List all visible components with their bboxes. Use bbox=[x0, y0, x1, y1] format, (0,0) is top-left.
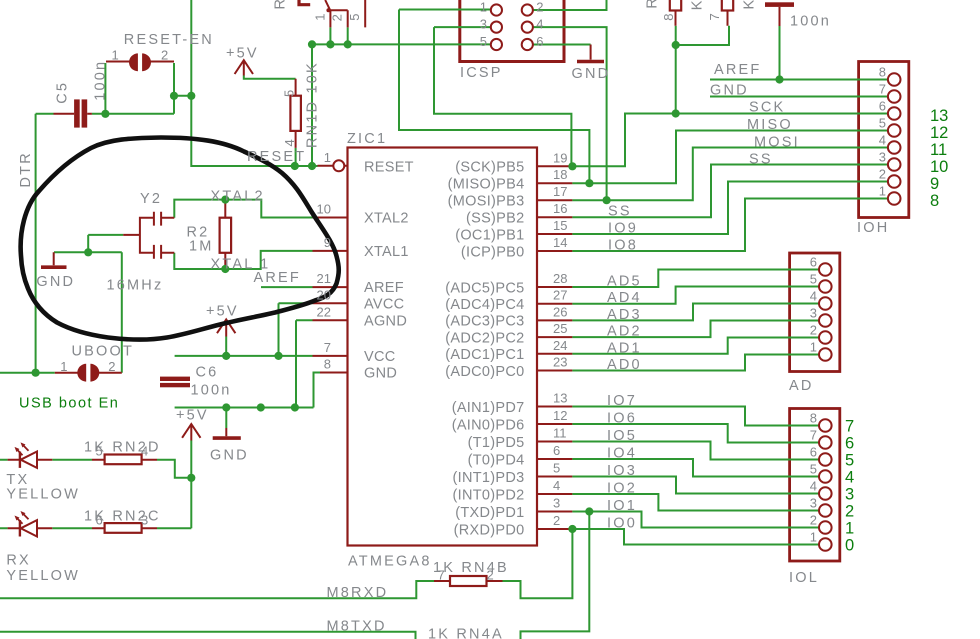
svg-text:2: 2 bbox=[330, 14, 345, 21]
svg-text:100n: 100n bbox=[790, 14, 831, 30]
svg-text:(RXD)PD0: (RXD)PD0 bbox=[454, 522, 525, 538]
svg-text:5: 5 bbox=[845, 451, 854, 469]
svg-text:(T1)PD5: (T1)PD5 bbox=[468, 435, 525, 451]
svg-text:5: 5 bbox=[553, 461, 560, 476]
svg-text:3: 3 bbox=[879, 150, 886, 165]
svg-text:RX: RX bbox=[6, 553, 31, 569]
svg-text:(ADC5)PC5: (ADC5)PC5 bbox=[445, 280, 524, 296]
svg-text:11: 11 bbox=[553, 426, 567, 441]
svg-text:AD0: AD0 bbox=[607, 357, 642, 373]
svg-text:1: 1 bbox=[313, 14, 328, 21]
svg-text:K: K bbox=[690, 0, 706, 10]
svg-text:27: 27 bbox=[553, 288, 567, 303]
svg-text:8: 8 bbox=[879, 65, 886, 80]
svg-text:(ICP)PB0: (ICP)PB0 bbox=[461, 244, 525, 260]
svg-text:28: 28 bbox=[553, 271, 567, 286]
svg-text:AVCC: AVCC bbox=[364, 296, 404, 312]
svg-text:(OC1)PB1: (OC1)PB1 bbox=[455, 227, 524, 243]
svg-text:(AIN1)PD7: (AIN1)PD7 bbox=[452, 400, 525, 416]
svg-text:8: 8 bbox=[661, 14, 676, 21]
svg-text:M8RXD: M8RXD bbox=[327, 585, 389, 601]
svg-text:(SS)PB2: (SS)PB2 bbox=[466, 211, 525, 227]
svg-text:10: 10 bbox=[317, 202, 331, 217]
svg-text:2: 2 bbox=[536, 0, 543, 14]
svg-text:GND: GND bbox=[210, 448, 249, 464]
svg-text:6: 6 bbox=[879, 99, 886, 114]
svg-text:IO6: IO6 bbox=[607, 411, 637, 427]
svg-text:7: 7 bbox=[324, 340, 331, 355]
svg-text:25: 25 bbox=[553, 321, 567, 336]
svg-text:9: 9 bbox=[324, 235, 331, 250]
svg-text:3: 3 bbox=[845, 485, 854, 503]
svg-text:(MOSI)PB3: (MOSI)PB3 bbox=[448, 194, 525, 210]
svg-text:13: 13 bbox=[930, 107, 948, 125]
svg-text:22: 22 bbox=[317, 304, 331, 319]
svg-text:4: 4 bbox=[845, 468, 854, 486]
svg-text:AD4: AD4 bbox=[607, 290, 642, 306]
svg-text:16: 16 bbox=[553, 201, 567, 216]
svg-text:14: 14 bbox=[553, 235, 567, 250]
svg-text:RESET: RESET bbox=[364, 159, 414, 175]
svg-text:6: 6 bbox=[536, 34, 543, 49]
svg-text:AGND: AGND bbox=[364, 313, 407, 329]
svg-text:23: 23 bbox=[553, 355, 567, 370]
svg-text:15: 15 bbox=[553, 218, 567, 233]
svg-text:AD: AD bbox=[789, 378, 814, 394]
svg-text:USB boot En: USB boot En bbox=[19, 396, 119, 412]
svg-text:IO7: IO7 bbox=[607, 393, 637, 409]
svg-text:16MHz: 16MHz bbox=[107, 278, 164, 294]
svg-text:M8TXD: M8TXD bbox=[327, 619, 387, 635]
svg-text:RN1D 10K: RN1D 10K bbox=[305, 61, 321, 148]
svg-text:MISO: MISO bbox=[747, 117, 793, 133]
svg-text:XTAL2: XTAL2 bbox=[364, 211, 409, 227]
svg-text:(T0)PD4: (T0)PD4 bbox=[468, 452, 525, 468]
svg-text:2: 2 bbox=[810, 513, 817, 528]
svg-text:IO5: IO5 bbox=[607, 428, 637, 444]
svg-text:1: 1 bbox=[60, 359, 67, 374]
svg-text:C6: C6 bbox=[196, 365, 219, 381]
svg-text:(ADC0)PC0: (ADC0)PC0 bbox=[445, 364, 524, 380]
svg-text:AD1: AD1 bbox=[607, 340, 642, 356]
svg-text:AD5: AD5 bbox=[607, 274, 642, 290]
svg-text:5: 5 bbox=[810, 462, 817, 477]
svg-text:IOL: IOL bbox=[789, 570, 819, 586]
svg-text:4: 4 bbox=[282, 139, 297, 146]
svg-text:ATMEGA8: ATMEGA8 bbox=[348, 554, 432, 570]
svg-text:Y2: Y2 bbox=[140, 191, 162, 207]
svg-text:(INT0)PD2: (INT0)PD2 bbox=[453, 487, 525, 503]
svg-text:18: 18 bbox=[553, 167, 567, 182]
svg-text:3: 3 bbox=[480, 16, 487, 31]
svg-text:AREF: AREF bbox=[364, 280, 404, 296]
svg-text:7: 7 bbox=[438, 568, 445, 583]
svg-text:4: 4 bbox=[810, 289, 817, 304]
svg-text:IO4: IO4 bbox=[607, 446, 637, 462]
svg-text:(ADC3)PC3: (ADC3)PC3 bbox=[445, 314, 524, 330]
svg-text:UBOOT: UBOOT bbox=[72, 344, 135, 360]
svg-text:5: 5 bbox=[282, 90, 297, 97]
svg-text:24: 24 bbox=[553, 338, 567, 353]
svg-text:GND: GND bbox=[710, 83, 749, 99]
svg-text:12: 12 bbox=[553, 408, 567, 423]
svg-text:+5V: +5V bbox=[176, 408, 209, 424]
svg-text:IO3: IO3 bbox=[607, 463, 637, 479]
svg-text:GND: GND bbox=[36, 274, 75, 290]
svg-text:26: 26 bbox=[553, 304, 567, 319]
svg-text:21: 21 bbox=[317, 271, 331, 286]
svg-text:ZIC1: ZIC1 bbox=[347, 131, 387, 147]
svg-text:AREF: AREF bbox=[254, 270, 301, 286]
svg-text:IO8: IO8 bbox=[608, 238, 638, 254]
svg-text:5: 5 bbox=[480, 34, 487, 49]
svg-text:6: 6 bbox=[810, 445, 817, 460]
svg-text:4: 4 bbox=[879, 133, 886, 148]
svg-text:+5V: +5V bbox=[206, 304, 239, 320]
svg-text:ICSP: ICSP bbox=[460, 65, 503, 81]
svg-text:1: 1 bbox=[112, 48, 119, 63]
svg-text:IO0: IO0 bbox=[607, 516, 637, 532]
svg-text:AREF: AREF bbox=[714, 62, 761, 78]
svg-text:SCK: SCK bbox=[749, 100, 785, 116]
svg-text:C5: C5 bbox=[55, 81, 71, 104]
svg-text:11: 11 bbox=[930, 141, 947, 159]
svg-text:7: 7 bbox=[879, 82, 886, 97]
svg-text:6: 6 bbox=[96, 512, 103, 527]
svg-text:0: 0 bbox=[845, 536, 854, 554]
svg-text:12: 12 bbox=[930, 124, 948, 142]
svg-text:1: 1 bbox=[879, 184, 886, 199]
svg-text:7: 7 bbox=[707, 13, 722, 20]
svg-text:1: 1 bbox=[810, 530, 817, 545]
svg-text:YELLOW: YELLOW bbox=[6, 568, 80, 584]
svg-text:(ADC2)PC2: (ADC2)PC2 bbox=[445, 330, 524, 346]
svg-text:7: 7 bbox=[810, 428, 817, 443]
svg-text:MOSI: MOSI bbox=[754, 135, 800, 151]
svg-text:20: 20 bbox=[317, 287, 331, 302]
svg-text:100n: 100n bbox=[191, 383, 232, 399]
svg-text:IOH: IOH bbox=[857, 220, 889, 236]
svg-text:17: 17 bbox=[553, 184, 567, 199]
svg-text:1: 1 bbox=[480, 0, 487, 14]
svg-text:9: 9 bbox=[930, 175, 939, 193]
svg-text:5: 5 bbox=[879, 116, 886, 131]
svg-text:2: 2 bbox=[810, 323, 817, 338]
svg-text:AD2: AD2 bbox=[607, 324, 642, 340]
svg-text:10: 10 bbox=[930, 158, 948, 176]
svg-text:5: 5 bbox=[810, 272, 817, 287]
svg-text:5: 5 bbox=[96, 444, 103, 459]
svg-text:IO9: IO9 bbox=[608, 221, 638, 237]
svg-text:YELLOW: YELLOW bbox=[6, 487, 80, 503]
svg-text:3: 3 bbox=[553, 496, 560, 511]
svg-text:1: 1 bbox=[810, 340, 817, 355]
svg-text:SS: SS bbox=[608, 204, 632, 220]
svg-text:1: 1 bbox=[845, 519, 854, 537]
svg-text:3: 3 bbox=[810, 496, 817, 511]
svg-text:2: 2 bbox=[845, 502, 854, 520]
svg-text:1M: 1M bbox=[189, 239, 214, 255]
svg-text:(ADC1)PC1: (ADC1)PC1 bbox=[445, 347, 524, 363]
svg-text:K: K bbox=[742, 0, 758, 10]
svg-text:6: 6 bbox=[810, 255, 817, 270]
svg-text:3: 3 bbox=[141, 512, 148, 527]
svg-text:IO1: IO1 bbox=[607, 498, 637, 514]
svg-text:8: 8 bbox=[930, 192, 939, 210]
svg-text:(TXD)PD1: (TXD)PD1 bbox=[455, 505, 524, 521]
svg-text:RESET: RESET bbox=[247, 149, 306, 165]
svg-text:2: 2 bbox=[553, 513, 560, 528]
svg-text:2: 2 bbox=[487, 568, 494, 583]
svg-text:1K RN4A: 1K RN4A bbox=[428, 627, 504, 639]
svg-text:SS: SS bbox=[749, 152, 773, 168]
svg-text:IO2: IO2 bbox=[607, 481, 637, 497]
svg-text:4: 4 bbox=[536, 16, 543, 31]
svg-text:RESET-EN: RESET-EN bbox=[124, 32, 214, 48]
svg-text:R: R bbox=[645, 0, 661, 9]
svg-text:1: 1 bbox=[324, 150, 331, 165]
svg-text:19: 19 bbox=[553, 150, 567, 165]
svg-text:GND: GND bbox=[572, 66, 611, 82]
svg-text:5: 5 bbox=[347, 14, 362, 21]
svg-text:R: R bbox=[273, 0, 289, 10]
svg-text:VCC: VCC bbox=[364, 349, 396, 365]
svg-text:6: 6 bbox=[845, 434, 854, 452]
svg-text:4: 4 bbox=[553, 478, 560, 493]
svg-text:AD3: AD3 bbox=[607, 307, 642, 323]
svg-text:4: 4 bbox=[810, 479, 817, 494]
svg-text:100n: 100n bbox=[92, 60, 108, 101]
svg-text:XTAL1: XTAL1 bbox=[364, 244, 409, 260]
svg-text:(MISO)PB4: (MISO)PB4 bbox=[448, 177, 525, 193]
svg-text:+5V: +5V bbox=[226, 46, 259, 62]
svg-text:(ADC4)PC4: (ADC4)PC4 bbox=[445, 297, 524, 313]
svg-text:8: 8 bbox=[810, 411, 817, 426]
svg-text:2: 2 bbox=[161, 48, 168, 63]
svg-text:2: 2 bbox=[879, 167, 886, 182]
svg-text:(INT1)PD3: (INT1)PD3 bbox=[453, 470, 525, 486]
svg-text:13: 13 bbox=[553, 391, 567, 406]
svg-text:(AIN0)PD6: (AIN0)PD6 bbox=[452, 417, 525, 433]
svg-text:4: 4 bbox=[141, 444, 148, 459]
svg-text:3: 3 bbox=[810, 306, 817, 321]
svg-text:8: 8 bbox=[324, 357, 331, 372]
svg-text:XTAL2: XTAL2 bbox=[211, 189, 265, 205]
svg-text:GND: GND bbox=[364, 366, 397, 382]
svg-text:7: 7 bbox=[845, 417, 854, 435]
svg-text:2: 2 bbox=[108, 359, 115, 374]
svg-text:6: 6 bbox=[553, 443, 560, 458]
svg-text:DTR: DTR bbox=[18, 151, 34, 187]
svg-text:(SCK)PB5: (SCK)PB5 bbox=[455, 160, 524, 176]
